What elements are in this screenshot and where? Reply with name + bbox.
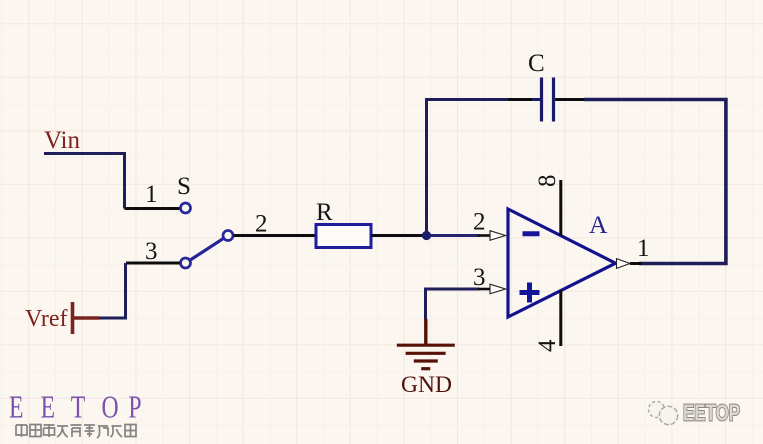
- capacitor C right plate: [554, 78, 564, 122]
- switch blade (diagonal arm): [190, 238, 224, 260]
- watermark EETOP text: [683, 400, 740, 426]
- switch terminal circle pin1: [181, 203, 191, 213]
- svg-text:P: P: [128, 390, 141, 425]
- GND stub: [424, 319, 427, 344]
- junction node dot: [422, 231, 431, 240]
- power pin 8 line: [559, 180, 562, 236]
- op-amp input pin 3 arrow: [490, 284, 506, 294]
- net label Vin: [44, 127, 80, 154]
- watermark WeChat icon: [649, 402, 678, 425]
- pin number 1 at output: [637, 235, 650, 262]
- wire feedback vertical left: [427, 100, 510, 236]
- switch common terminal circle: [223, 231, 233, 241]
- GND bar 1: [397, 344, 455, 347]
- svg-text:1: 1: [145, 181, 158, 208]
- GND label: [401, 372, 452, 398]
- power pin number 4: [534, 339, 561, 352]
- svg-text:A: A: [589, 210, 608, 239]
- wire switch to resistor: [234, 234, 316, 237]
- svg-text:R: R: [316, 199, 333, 226]
- svg-text:T: T: [71, 390, 85, 425]
- svg-text:3: 3: [145, 238, 158, 265]
- svg-text:E: E: [41, 390, 55, 425]
- svg-text:C: C: [528, 50, 545, 77]
- wire junction to op-amp pin2: [427, 234, 491, 237]
- EETOP Chinese subtitle (approximated glyphs): [16, 424, 136, 438]
- op-amp output pin 1 arrow: [617, 259, 631, 269]
- svg-text:8: 8: [534, 175, 561, 188]
- svg-text:Vin: Vin: [44, 127, 80, 154]
- switch terminal circle pin3: [181, 258, 191, 268]
- pin number 2 (switch output): [255, 211, 268, 238]
- pin 3 lead of switch S: [126, 262, 180, 265]
- pin 1 lead of switch S: [125, 207, 181, 210]
- GND bar 4: [421, 367, 430, 370]
- pin number 3: [145, 238, 158, 265]
- svg-text:GND: GND: [401, 372, 452, 398]
- resistor R body: [316, 225, 371, 248]
- pin number 2 at op-amp: [473, 209, 486, 236]
- capacitor C left lead: [508, 98, 539, 101]
- switch S designator: [177, 173, 191, 200]
- wire Vref vertical: [97, 263, 126, 318]
- svg-text:1: 1: [637, 235, 650, 262]
- svg-text:3: 3: [473, 264, 486, 291]
- svg-text:S: S: [177, 173, 191, 200]
- op-amp designator A: [589, 210, 608, 239]
- net label Vref: [25, 306, 68, 332]
- output pin lead: [630, 262, 642, 265]
- capacitor C left plate: [532, 78, 542, 122]
- GND bar 3: [414, 359, 438, 362]
- op-amp input pin 2 arrow: [490, 231, 506, 241]
- capacitor C right lead: [556, 98, 586, 101]
- GND bar 2: [406, 352, 446, 355]
- op-amp A triangle: [508, 209, 616, 317]
- port Vref stub: [73, 316, 99, 319]
- wire Vin horizontal and vertical: [44, 154, 125, 209]
- svg-text:2: 2: [255, 211, 268, 238]
- wire resistor to junction: [371, 234, 427, 237]
- svg-text:2: 2: [473, 209, 486, 236]
- op-amp minus input symbol: [523, 231, 540, 236]
- svg-text:E: E: [9, 390, 23, 425]
- power pin 4 line: [559, 291, 562, 347]
- wire GND to op-amp pin3: [426, 289, 491, 321]
- power pin number 8: [534, 175, 561, 188]
- svg-text:EETOP: EETOP: [683, 400, 740, 426]
- port Vref bar: [71, 302, 75, 334]
- EETOP logo text: [9, 390, 142, 425]
- svg-text:4: 4: [534, 339, 561, 352]
- capacitor C designator: [528, 50, 545, 77]
- op-amp plus input symbol: [520, 283, 540, 303]
- resistor R designator: [316, 199, 333, 226]
- svg-text:O: O: [102, 390, 119, 425]
- svg-text:Vref: Vref: [25, 306, 68, 332]
- pin number 3 at op-amp: [473, 264, 486, 291]
- pin number 1: [145, 181, 158, 208]
- wire feedback top and right side: [584, 100, 726, 264]
